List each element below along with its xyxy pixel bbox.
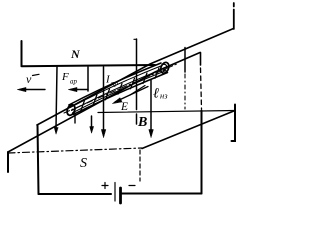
svg-text:E: E <box>120 101 128 113</box>
dim line solid at rod right <box>184 48 186 73</box>
S-face back edge <box>98 111 235 113</box>
S-face left edge <box>7 152 9 172</box>
field line 5 <box>150 80 152 131</box>
leader stroke near rod right <box>130 86 145 96</box>
wire right vertical <box>201 111 203 194</box>
svg-text:ℓ: ℓ <box>153 87 159 102</box>
svg-text:ap: ap <box>70 78 78 86</box>
wire bottom left <box>39 193 112 195</box>
S-face front edge dash-dot <box>8 148 142 153</box>
field line 2 lower part <box>91 116 93 128</box>
field line 1 <box>56 67 57 128</box>
right wire upper solid <box>200 53 202 66</box>
force arrow <box>71 89 88 91</box>
rod top edge inner double <box>70 66 162 108</box>
battery plus <box>102 183 108 189</box>
dim line dashed at rod right <box>184 74 186 109</box>
rod right end cap <box>159 61 170 74</box>
field line 5 arrowhead <box>149 130 153 138</box>
rod cross ticks <box>81 68 160 112</box>
rail 2 lower diagonal <box>8 53 200 153</box>
svg-text:N: N <box>70 47 81 61</box>
tick below rod left cap <box>74 113 76 123</box>
rod bottom edge <box>73 73 167 115</box>
svg-text:v: v <box>26 72 32 86</box>
svg-text:пр: пр <box>111 80 119 88</box>
rail right top hook <box>233 3 235 29</box>
field line 4 (B arrow) <box>136 39 138 110</box>
field line 3 <box>103 67 105 131</box>
field line 1 arrowhead <box>54 128 58 135</box>
field line 4 tick near B <box>136 114 138 124</box>
battery minus <box>129 185 135 187</box>
svg-text:S: S <box>80 156 87 171</box>
rod right cap inner curl <box>163 64 167 70</box>
field line 2 <box>87 67 89 91</box>
S-face right dashed vertical <box>139 150 141 181</box>
rod left end cap <box>66 104 77 117</box>
S-face right rail edge <box>142 111 235 149</box>
wire bottom right <box>122 193 202 195</box>
rod axis dash-dot <box>64 64 178 114</box>
field line 3 arrowhead <box>101 130 105 138</box>
N-pole bottom line <box>22 65 156 66</box>
svg-text:B: B <box>137 115 147 130</box>
wire left vertical <box>38 125 39 194</box>
battery long plate <box>114 183 116 202</box>
field line 2 arrowhead <box>90 127 94 134</box>
right wire hidden dashed <box>201 68 202 109</box>
velocity arrow <box>20 89 45 91</box>
battery short plate <box>119 188 122 203</box>
svg-text:F: F <box>61 71 69 83</box>
rod inner line mid <box>72 69 165 111</box>
EMF arrow <box>115 87 148 103</box>
N-pole left edge <box>21 41 23 66</box>
rail 1 upper diagonal <box>37 29 234 126</box>
S-face right hook <box>232 105 236 142</box>
rod top edge <box>69 63 161 105</box>
field line 4 top serif <box>134 38 137 40</box>
svg-text:нз: нз <box>160 91 168 101</box>
rod inner line low <box>73 71 167 113</box>
